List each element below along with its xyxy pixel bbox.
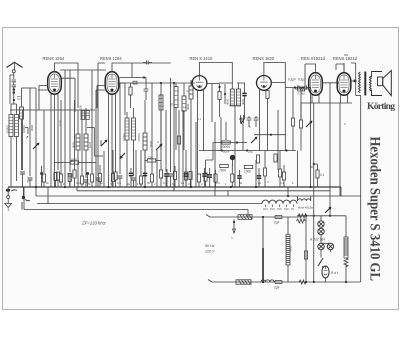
wire U2 cathode (108, 94, 110, 188)
junction dot M (262, 281, 264, 283)
wire L18 (175, 84, 177, 151)
svg-text:30: 30 (310, 165, 314, 169)
wire R34 (174, 166, 176, 187)
wire R38 (55, 181, 57, 188)
junction dot J (236, 141, 238, 143)
svg-text:10000: 10000 (137, 133, 141, 141)
wire caps line y87.5 (285, 88, 310, 104)
junction dot H (221, 149, 223, 151)
wire lamp row (321, 243, 331, 255)
wire: main ground bus (8, 186, 341, 188)
heater winding coil (262, 200, 297, 204)
svg-text:0,5: 0,5 (117, 181, 121, 185)
choke L15 (344, 237, 348, 258)
wire x161 (160, 83, 162, 170)
wire x235 down (234, 122, 236, 187)
resistor R30b (299, 120, 302, 128)
resistor R24 zigzag (344, 258, 348, 267)
wire L17 (183, 84, 185, 151)
svg-text:4V: 4V (291, 207, 294, 211)
wire right long vertical (360, 96, 362, 283)
svg-text:RENS 1820: RENS 1820 (253, 56, 275, 61)
wire Gwd (295, 88, 309, 90)
osc coil L16 (159, 95, 163, 110)
svg-text:4V0: 4V0 (284, 207, 289, 211)
wire U1 center pin (54, 95, 56, 188)
wire x183 (182, 110, 184, 187)
coil L6 (84, 134, 88, 150)
svg-text:Körting: Körting (367, 102, 395, 112)
svg-text:2µF: 2µF (274, 221, 280, 225)
earth jack dark (22, 196, 25, 199)
wire x120 (119, 83, 121, 174)
potentiometer P1 (230, 155, 235, 160)
wire grid cap U4 (264, 63, 285, 77)
coil L2 (15, 115, 19, 137)
junction dot I (285, 149, 287, 151)
fuse F1 (238, 215, 252, 220)
wire C2 (29, 180, 31, 187)
junction dot K (313, 163, 315, 165)
resistor R23b zigzag (297, 219, 306, 223)
capacitor C10 (305, 86, 307, 90)
wire x330 (329, 103, 331, 216)
wire R26 (81, 184, 83, 187)
component cluster E (239, 115, 245, 123)
wire C4 (85, 182, 87, 187)
transformer T1 primary winding (359, 72, 361, 93)
switch S1 (33, 143, 39, 149)
wire x179 (178, 110, 180, 187)
small box on line (133, 81, 137, 84)
svg-text:20µ: 20µ (248, 150, 253, 154)
link wire y162.5 (55, 162, 97, 164)
capacitor C9 (297, 86, 299, 90)
resistor R9 (159, 170, 162, 178)
wire lamps v (320, 216, 322, 244)
wire R11 (185, 168, 187, 187)
junction dot B (160, 82, 162, 84)
resistor R7 (129, 87, 132, 95)
coil L7a (81, 111, 85, 120)
wire x170 (170, 78, 172, 172)
wire sq2 (87, 175, 89, 187)
corner contact (25, 128, 28, 139)
svg-text:0,1: 0,1 (76, 181, 80, 185)
svg-text:Hexoden Super S 3410 GL: Hexoden Super S 3410 GL (367, 137, 383, 282)
transformer T1 core (364, 72, 366, 96)
svg-text:1940: 1940 (71, 158, 78, 162)
wire bus risers (24, 187, 341, 217)
osc coil L18 (174, 87, 178, 108)
resistor R15 (222, 141, 230, 144)
svg-text:1µ: 1µ (181, 181, 185, 185)
wire x313.75 psu (313, 191, 315, 282)
svg-text:1015: 1015 (88, 141, 92, 148)
tube U4 RENS1820 (257, 76, 272, 91)
wire U1 screen (57, 94, 59, 171)
tiny value labels row (27, 180, 294, 186)
junction dot D (218, 86, 220, 88)
osc coil L17 (182, 96, 186, 111)
wire R33 (279, 151, 281, 188)
wire R19 (215, 170, 217, 187)
svg-text:50: 50 (147, 181, 151, 185)
wire U2 right pin (119, 63, 146, 78)
wire x285.3 (284, 63, 286, 151)
wire R12 (198, 182, 200, 187)
coil L13 (237, 89, 241, 106)
wire contacts down (10, 75, 14, 104)
wire x174 (173, 83, 175, 191)
speaker LS cone (383, 71, 392, 96)
resistor C11 (231, 174, 234, 182)
svg-text:A 2U2 364: A 2U2 364 (310, 238, 325, 242)
svg-text:0,1: 0,1 (280, 181, 284, 185)
resistor R22 (316, 170, 319, 178)
transformer core heavy (262, 248, 264, 283)
wire jack down (13, 73, 15, 79)
svg-text:150: 150 (148, 156, 153, 160)
wire C25 (204, 168, 206, 187)
wire transformer bottom (356, 95, 361, 97)
resistor R28 (59, 174, 62, 182)
svg-text:4000: 4000 (186, 103, 190, 110)
svg-text:2µF: 2µF (274, 286, 280, 290)
svg-text:1000: 1000 (59, 119, 63, 126)
wire x226 (225, 122, 227, 140)
svg-text:0,1µF: 0,1µF (288, 78, 296, 82)
switch S6 (306, 121, 312, 127)
wire C3 (69, 176, 71, 187)
svg-text:REN S1821d: REN S1821d (301, 56, 326, 61)
junction dot P (329, 215, 331, 217)
junction dot D2 (224, 93, 226, 95)
mark top right (344, 54, 348, 56)
wire x243 (242, 123, 244, 151)
svg-text:5t: 5t (88, 182, 91, 186)
antenna (7, 62, 23, 67)
tube U6 RENS1821d (337, 73, 351, 95)
svg-text:RENS 1821d: RENS 1821d (333, 56, 358, 61)
wire x225 (224, 84, 226, 104)
wire: bus 4 (37, 203, 262, 205)
coil L7b (86, 111, 90, 120)
bottom coil humps (261, 280, 274, 282)
transformer primary wire (262, 217, 264, 250)
resistor R36 small box (147, 159, 155, 162)
dark square cap1 (40, 172, 43, 175)
capacitor C11b (237, 176, 241, 178)
wire x301 (300, 103, 302, 120)
resistor R38 (54, 173, 57, 181)
antenna lead (14, 63, 16, 70)
junction dot A (13, 99, 15, 101)
contact pair 1 (12, 80, 16, 82)
capacitor C27 (242, 93, 246, 95)
label Ld (17, 97, 21, 100)
svg-text:Netz 4015a: Netz 4015a (298, 206, 313, 210)
wire x22.5 (22, 110, 24, 170)
junction dots PSU bottom (305, 281, 347, 283)
wire y88 to tube1 (22, 87, 31, 89)
svg-text:Netz: Netz (289, 245, 293, 252)
wire x306 (305, 216, 307, 282)
junction dot O (313, 215, 315, 217)
resistor R18 (204, 173, 207, 181)
wire R27 (140, 184, 142, 187)
wire x136 (135, 150, 137, 187)
svg-text:2µ: 2µ (127, 182, 131, 186)
svg-text:0,5: 0,5 (216, 181, 220, 185)
wire x141 (140, 150, 142, 176)
capacitor C16 (164, 174, 169, 176)
capacitor C6 (131, 178, 136, 180)
wire U2 anode (119, 83, 125, 115)
resistor R5 (90, 174, 93, 182)
wire P1 (232, 160, 234, 166)
resistor R10 (177, 136, 180, 144)
wire C5 (97, 180, 99, 187)
junction dot I2 (270, 134, 272, 136)
svg-text:R a t: R a t (331, 271, 338, 275)
wire x196 (195, 122, 197, 187)
wire R2 (43, 182, 45, 187)
wire x96 (95, 90, 97, 187)
wire R39 (69, 182, 71, 188)
wire U1 right pin (61, 78, 75, 112)
svg-text:0,1: 0,1 (320, 173, 325, 177)
wire x70 (69, 70, 71, 172)
wire x157 (156, 150, 158, 187)
contact pair 2 (12, 82, 16, 87)
resistor R25 zigzag (299, 280, 306, 284)
wire x313.75 (313, 103, 315, 191)
svg-text:0,1: 0,1 (197, 117, 201, 121)
capacitor hat C30 (143, 61, 152, 65)
resistor R34 (173, 172, 176, 180)
wire grid caps U5 U6 (305, 64, 344, 89)
wire C8 (170, 176, 172, 187)
wire sq1 (41, 166, 43, 187)
svg-text:RENS 1264: RENS 1264 (100, 56, 122, 61)
contact dot 2 (13, 92, 15, 94)
tube U5 RENS1821d (309, 73, 323, 95)
wire vertical x30 (29, 88, 31, 176)
coil L5 (76, 134, 80, 150)
lamp LP2 (318, 228, 324, 234)
wire C22 (144, 150, 146, 187)
lamp LP1 (318, 221, 324, 227)
svg-text:L: L (232, 236, 234, 240)
wire L15 (345, 216, 347, 282)
resistor R6 (114, 172, 117, 180)
wire L11 (190, 80, 192, 187)
resistor R13 (218, 92, 221, 100)
wire R9 (160, 178, 162, 187)
wire C11b (239, 170, 241, 187)
wire x166 (165, 110, 167, 172)
dark square cap2 (86, 172, 89, 175)
coil L0 (20, 107, 24, 119)
resistor R33 (278, 169, 281, 177)
wire U6 anode to transformer (351, 80, 356, 82)
capacitor C15 (118, 176, 123, 178)
capacitor C29 (257, 176, 261, 178)
wire left tail (206, 215, 300, 218)
capacitor C22 (143, 173, 147, 175)
coil L9 (132, 118, 136, 140)
switch S3 (101, 140, 107, 146)
resistor R41 (111, 174, 114, 182)
resistor R17 (244, 165, 252, 168)
junction dot L (233, 221, 235, 223)
fuse F2 striped box (236, 280, 251, 284)
wire R3 (57, 180, 59, 187)
svg-text:4V4: 4V4 (263, 207, 268, 211)
wire x321 low (321, 255, 323, 268)
speaker LS frame bottom (372, 90, 383, 96)
junction dot I3 (246, 149, 248, 151)
capacitor C25 (202, 174, 206, 176)
capacitor C26 (129, 173, 133, 175)
capacitor C23 (165, 174, 169, 176)
wire U4 cathode (259, 89, 261, 151)
svg-text:4000: 4000 (241, 98, 245, 105)
wire primary left (344, 63, 356, 96)
bottom wire PSU (208, 280, 361, 283)
coil L1 (9, 115, 13, 137)
wire y84 link (206, 83, 219, 85)
svg-text:4V0: 4V0 (277, 207, 282, 211)
capacitor C21 (304, 251, 307, 259)
wire grid cap U3 (200, 63, 233, 87)
antenna jack circle (12, 70, 15, 73)
wire C24 (185, 150, 187, 187)
wire x21.5 (21, 88, 23, 107)
wire U3 cathode (197, 90, 199, 175)
wire x256 (255, 160, 257, 187)
mains plug wire (233, 219, 236, 233)
wire U2 screen (115, 94, 117, 173)
wire U4 anode link (267, 89, 269, 151)
lamp LP4 (327, 243, 333, 249)
wire C27 (244, 83, 246, 117)
resistor R29b (291, 118, 294, 126)
junction dot primary (262, 216, 264, 218)
coil L10 (143, 133, 147, 150)
wire x61 (60, 100, 62, 174)
resistor R26 (80, 176, 83, 184)
wire R22 (314, 164, 318, 187)
wire R21 (283, 165, 285, 187)
wire C16 (165, 176, 167, 187)
wire: L1 down to bus (11, 104, 17, 187)
svg-text:REN S 1410: REN S 1410 (190, 56, 213, 61)
wire x221 (220, 117, 222, 151)
capacitor C20 cluster (241, 116, 258, 127)
resistor R37 (70, 161, 78, 164)
svg-text:4V4: 4V4 (270, 207, 275, 211)
resistor R27 (139, 176, 142, 184)
switch S9 (120, 153, 125, 158)
wire x98 (97, 90, 99, 176)
transformer T1 secondary winding (370, 76, 372, 91)
tiny labels coils vertical (6, 98, 246, 148)
junction dots bus (35, 186, 312, 197)
svg-text:50: 50 (239, 181, 243, 185)
junction dot C (173, 82, 175, 84)
resistor R40 (98, 174, 101, 182)
svg-text:2µ: 2µ (258, 181, 262, 185)
capacitor C28 (208, 175, 212, 177)
wire anode link rail (60, 69, 106, 71)
capacitor C3 (68, 174, 73, 176)
ground symbol (5, 187, 12, 211)
svg-text:7000: 7000 (219, 169, 226, 173)
capacitor C13 (275, 216, 282, 219)
tube U3 RENS1410 (192, 76, 207, 91)
wire L16 (160, 110, 162, 150)
wire R40 (99, 165, 101, 187)
wire y216 (297, 215, 346, 217)
resistor R42 (266, 91, 269, 99)
resistor R35 (189, 172, 192, 180)
wire L0 down (21, 119, 23, 170)
switch S8 (318, 258, 323, 266)
resistor R8 (150, 174, 153, 182)
resistor R2 (42, 174, 45, 182)
wire C28 (209, 168, 211, 187)
wire: bus 3 (36, 195, 361, 197)
earth switch (22, 187, 30, 210)
wire x74.5 (75, 63, 79, 170)
wire y83 link (119, 82, 195, 84)
wire grid cap U1 (55, 63, 79, 72)
svg-text:RENS 1264: RENS 1264 (43, 56, 65, 61)
capacitor C14 (275, 281, 282, 284)
resistor R19 (214, 174, 217, 182)
speaker LS frame top (372, 72, 383, 78)
wire y150 (199, 150, 296, 152)
wire V1 down (325, 278, 327, 282)
svg-text:50 Hz: 50 Hz (205, 244, 215, 248)
capacitor C4 (84, 180, 89, 182)
svg-text:1000: 1000 (244, 170, 251, 174)
junction dot G (302, 86, 304, 88)
coil L8 (125, 118, 129, 140)
junction dot anode (354, 80, 357, 83)
wire U1 left pin (30, 86, 48, 111)
svg-text:4000: 4000 (226, 98, 230, 105)
wire x152 (151, 83, 153, 174)
coil L11 (189, 86, 193, 99)
switch S5 (251, 137, 257, 143)
svg-text:50µF: 50µF (223, 150, 230, 154)
wire R7 (130, 83, 132, 108)
wire U5/U6 bottoms (301, 95, 352, 103)
svg-text:G Wd: G Wd (298, 92, 306, 96)
wire choke (287, 217, 289, 282)
heater winding right coil (298, 196, 311, 201)
wire C23 (166, 169, 168, 187)
wire R13 (219, 84, 221, 117)
svg-text:220 V: 220 V (204, 250, 215, 254)
junction dot F (294, 86, 296, 88)
wire U4 side (271, 82, 286, 84)
resistor R11 (184, 172, 187, 180)
wire between tubes y82.8 (322, 83, 339, 103)
